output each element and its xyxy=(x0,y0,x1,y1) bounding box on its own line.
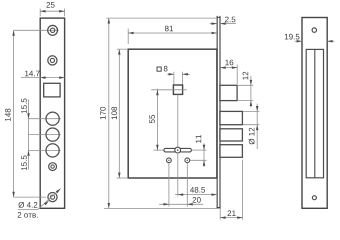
dim 21 ext left xyxy=(219,209,221,219)
dim 81 extension line xyxy=(127,29,129,45)
dim 8 line xyxy=(167,73,174,75)
dim 15.5 chain line xyxy=(28,100,30,170)
bottom screw centerline xyxy=(14,196,46,198)
square-8 label xyxy=(164,66,168,72)
strike bottom hole xyxy=(312,196,316,200)
dim 148 label xyxy=(5,109,11,121)
dim 21 ext right xyxy=(242,160,244,220)
dim 8 extension lines xyxy=(173,72,175,85)
dim 170 label xyxy=(100,107,106,119)
dim 20 label xyxy=(193,197,201,203)
screw circles centerline ext right xyxy=(190,159,206,161)
dim 16 label xyxy=(225,60,233,66)
latch square cutout xyxy=(44,83,60,97)
deadbolt hole C centerline xyxy=(29,149,61,151)
dia 4.2 label xyxy=(18,202,37,208)
small hole D (outer) xyxy=(49,163,57,171)
dia 4.2 leader line xyxy=(38,189,61,210)
spindle vertical centerline xyxy=(177,94,179,147)
strike plate outline xyxy=(302,18,327,209)
screw hole top (inner) xyxy=(50,28,54,32)
dim 148 line xyxy=(13,30,15,197)
dim 14.7 label xyxy=(25,71,40,77)
deadbolt 2 (side) xyxy=(220,129,243,141)
dim 55 label xyxy=(149,115,155,123)
deadbolt hole C xyxy=(46,144,59,157)
deadbolt 1 (side) xyxy=(220,111,243,124)
dia 12 ext lines xyxy=(243,110,259,112)
deadbolt 3 (side) xyxy=(220,145,243,158)
dim 81 label xyxy=(165,26,173,32)
dim 12 label xyxy=(243,72,249,80)
faceplate strip (edge view) xyxy=(216,16,218,209)
screw hole 2 (outer) xyxy=(48,56,57,65)
strike top hole xyxy=(312,28,316,32)
dim 108 line xyxy=(118,49,120,178)
screw hole top centerline xyxy=(14,29,59,31)
bar centerline ext right xyxy=(192,149,207,151)
bottom screw hole (outer) xyxy=(48,193,57,202)
dim 20 line xyxy=(159,203,203,205)
ext vertical spindle xyxy=(177,152,179,196)
dia 12 label xyxy=(249,128,255,145)
ext vertical right circle xyxy=(186,163,188,206)
faceplate plate outline (left view) xyxy=(40,18,64,208)
dim 2.5 arrows xyxy=(210,23,217,25)
dim 15.5 lower label xyxy=(21,156,27,171)
dia 12 line xyxy=(256,104,258,149)
spindle square hole xyxy=(173,85,182,94)
dim 12 line xyxy=(250,76,252,108)
deadbolt hole B xyxy=(46,128,59,141)
2 holes note xyxy=(18,212,38,218)
deadbolt hole A centerline xyxy=(29,118,61,120)
dim 81 line xyxy=(128,32,217,34)
dim 48.5 line xyxy=(175,194,217,196)
dim 108 label xyxy=(111,107,117,119)
mount hole right dot xyxy=(187,160,188,161)
latch bolt (side) xyxy=(220,85,237,100)
screw hole top (outer) xyxy=(48,25,58,35)
body bottom ext left xyxy=(117,177,128,179)
mount hole right xyxy=(185,158,190,163)
ext vertical left circle xyxy=(168,163,170,206)
lever bar xyxy=(164,148,192,152)
dim 12 ext lines xyxy=(237,84,253,86)
square-8 symbol xyxy=(157,67,161,71)
dim 19.5 label xyxy=(285,34,300,40)
bottom screw hole (inner) xyxy=(50,195,54,199)
dim 25 extension lines xyxy=(39,9,41,17)
dim 48.5 label xyxy=(190,187,205,193)
strike slot center line xyxy=(314,49,316,177)
dim 21 label xyxy=(228,210,236,216)
lock body outline xyxy=(128,49,217,178)
mount hole left dot xyxy=(168,160,169,161)
dim 170 line xyxy=(108,18,110,208)
top extension line xyxy=(106,17,217,19)
strike slot outline xyxy=(306,49,323,177)
dim 14.7 line xyxy=(21,77,65,79)
dim 21 line xyxy=(220,217,242,219)
dim 55 bottom ext xyxy=(153,149,163,151)
dim 15.5 upper label xyxy=(21,99,27,114)
deadbolt hole A xyxy=(46,112,59,125)
dim 16 line xyxy=(220,67,237,69)
dim 19.5 line xyxy=(295,40,302,42)
dim 25 label xyxy=(46,2,54,8)
dim 55 line xyxy=(156,89,158,151)
deadbolt hole B centerline xyxy=(29,134,61,136)
lever bar hub dot xyxy=(177,149,179,151)
screw hole 2 (inner) xyxy=(50,58,54,62)
small hole D (inner) xyxy=(51,165,54,168)
body top ext left xyxy=(117,48,128,50)
dim 11 label xyxy=(196,135,202,143)
dim 25 line xyxy=(40,10,64,12)
spindle horizontal centerline xyxy=(151,89,187,91)
dim 16 ext right xyxy=(236,65,238,84)
dim 11 line xyxy=(203,143,205,167)
lever bar hub xyxy=(175,147,181,153)
dia 4.2 label underline xyxy=(18,208,38,210)
dim 2.5 label xyxy=(225,17,235,23)
mount hole left xyxy=(167,158,172,163)
bottom extension line xyxy=(104,207,221,209)
